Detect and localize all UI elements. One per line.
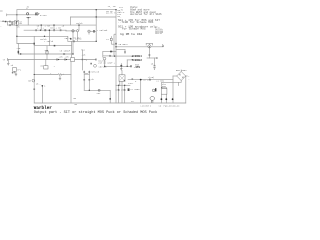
wire box TP2 drop (14, 71, 16, 72)
ground G1 (7, 63, 9, 65)
caps row y=30.2 (36, 29, 61, 31)
svg-text:1n5: 1n5 (115, 88, 120, 91)
wire vertical x=79 (78, 25, 80, 30)
wire vertical x=67.8 (67, 36, 69, 41)
transistor Q4 (32, 79, 35, 82)
svg-text:+IN: +IN (0, 19, 5, 22)
wire bridge right drop (185, 76, 187, 103)
wire vertical x=102.8 (102, 52, 104, 58)
wire left stub (0, 10, 2, 12)
wire vertical x=54 (53, 25, 55, 30)
wire rail R43 (17, 43, 34, 45)
wire vertical x17 to R43 (16, 36, 18, 43)
dark comp x=18.3 (18, 51, 20, 54)
wire diode branch x=121.3 (120, 64, 122, 69)
wire long vertical x=71 below box (70, 62, 72, 104)
comp box at x=111.3 (110, 38, 112, 40)
wire bus D y=25.1 (8, 24, 97, 26)
wire y=58 (147, 57, 157, 59)
wire q3 out (151, 46, 163, 48)
terminal TP tick (7, 58, 9, 60)
wire stub y=17.4 (27, 16, 31, 18)
wire y=41.3 (68, 40, 96, 42)
wire feedback y=74.5 (34, 74, 58, 76)
comp on y=55.9 (109, 55, 112, 57)
svg-text:..7k0R for Schade MOS: ..7k0R for Schade MOS (118, 20, 154, 24)
box at 119-125 (119, 75, 125, 82)
wire y=54 (18, 53, 73, 55)
caps on rail 59.5 (57, 59, 66, 61)
out tick (162, 45, 164, 48)
wire vertical x=71.5 (71, 41, 73, 57)
svg-text:22n+: 22n+ (128, 82, 134, 85)
wire transformer drops (160, 94, 162, 98)
wire y=45.7 (34, 45, 71, 47)
wire rail y=66.3 (105, 65, 131, 67)
svg-text:CHOKE2: CHOKE2 (133, 59, 142, 62)
wire vertical x=89.3 (88, 71, 90, 90)
wire gnd drop x=8.3 (7, 60, 9, 64)
svg-text:Listed x: Listed x (141, 105, 152, 108)
wire vertical x=41.2 (40, 25, 42, 30)
bars on x=34.2 (33, 88, 35, 91)
output circle J2 (150, 97, 155, 101)
wire bridge right arm (186, 75, 188, 77)
blob on y45.7 (54, 45, 56, 47)
bars on x=125 (124, 51, 126, 54)
bars on wire41.3 (73, 40, 76, 42)
bridge rectifier BR1 (177, 72, 186, 81)
dark cap 128 (128, 88, 130, 91)
wire vertical x=125 (124, 50, 126, 54)
svg-text:-: - (0, 25, 1, 28)
wire verticals to bottom rail (115, 85, 117, 103)
junction blob x34.2 R43 (34, 43, 35, 45)
junction dot input (16, 21, 17, 22)
choke arrow 1 (131, 55, 133, 57)
comp at 132 (132, 78, 134, 81)
svg-text:TS2: TS2 (81, 48, 86, 51)
svg-text:SR/1k8: SR/1k8 (99, 65, 108, 68)
bars on x=116 y43-45 (115, 42, 117, 45)
svg-text:1n5: 1n5 (121, 88, 126, 91)
junction dots rail 85.3 (118, 85, 119, 86)
junction dots row (40, 30, 41, 31)
bars x=149.4 (149, 54, 151, 57)
wire drop x=45.8 (45, 60, 47, 66)
svg-text:+(SR): +(SR) (148, 76, 155, 79)
blob cap x=28.2 (27, 17, 29, 18)
caps on x=89.3 (88, 72, 90, 80)
svg-text:CHOKE1: CHOKE1 (133, 55, 142, 58)
wire vertical x=28.2 (27, 18, 29, 25)
svg-text:+SR: +SR (59, 55, 64, 58)
svg-text:1g 3M to 342: 1g 3M to 342 (120, 32, 142, 36)
dark dot top of x=42.6 (42, 85, 44, 87)
wire y=74.2 link (84, 73, 89, 75)
wire drop x=154.5 (154, 58, 156, 65)
svg-text:for Schade MOS: for Schade MOS (122, 27, 146, 31)
transistor Q1 (72, 30, 74, 32)
svg-text:SID-xx: SID-xx (172, 105, 181, 108)
wire rail y=90.3 (84, 89, 110, 91)
dark blob x=91 (91, 63, 92, 65)
wire Q1 down (72, 32, 74, 41)
wire y=51.5 (103, 51, 116, 53)
svg-text:+ SR: + SR (45, 25, 51, 28)
wire box drops (119, 81, 121, 85)
resistor box R1 input (15, 20, 19, 25)
wire vertical bus x=96.2 (95, 10, 97, 42)
svg-text:declared for all SFAS: declared for all SFAS (130, 13, 162, 16)
wire q3 base y=46.8 (116, 46, 148, 48)
dark bar in box (16, 21, 17, 24)
input series blob (5, 21, 7, 23)
wire rail C (71, 16, 117, 18)
cap on y54 (64, 53, 65, 55)
ground G2 (59, 78, 61, 80)
wire vas vertical x=82.4 (81, 50, 83, 70)
dark comp at 70.8 (70, 38, 72, 40)
wire gnd stub zigzag (59, 76, 61, 78)
box TP2 (13, 68, 17, 72)
zigzag resistor feedback (58, 74, 62, 76)
svg-text:-: - (39, 82, 40, 85)
wire component row y=30.2 (24, 29, 66, 31)
terminal tick rail B (6, 14, 8, 16)
ground G3 (15, 74, 17, 76)
svg-text:Output part - SIT or straight: Output part - SIT or straight MOS Puck o… (34, 110, 157, 115)
wire q3 emitter x=149.4 (148, 48, 150, 58)
wire rail y=85.3 (116, 84, 130, 86)
wire base link Q1 Q2 (65, 29, 67, 32)
svg-text:+SR 1k 10uF +: +SR 1k 10uF + (98, 61, 116, 64)
svg-text:set: set (97, 92, 102, 95)
wire bottom rail (34, 102, 186, 104)
wire vertical x=127.2 (126, 60, 128, 66)
wire long right bus x=116 (115, 10, 117, 86)
svg-text:Warbler: Warbler (34, 106, 52, 111)
junction dot 140.7 (140, 79, 142, 81)
wire bridge left arm (173, 75, 177, 77)
capacitor C2 bars on bus D (9, 24, 12, 26)
comp near 149-151 on wire79.6 (148, 79, 151, 81)
small circle J3 (152, 89, 155, 92)
svg-text:+ SR/25k: + SR/25k (97, 29, 108, 32)
svg-text:+C 100n: +C 100n (130, 88, 140, 91)
wire box feed (121, 71, 123, 75)
vas bars x=82.4 (82, 58, 84, 61)
bold bar 93.4 (93, 30, 94, 33)
svg-text:49.7k TS: 49.7k TS (106, 12, 117, 15)
wire JFET drop x=47 (46, 46, 48, 51)
wire main rail R59.5 (8, 59, 96, 61)
wire vertical x=140.7 (140, 80, 142, 103)
transistor Q3 (148, 45, 151, 48)
ground G4 (120, 69, 122, 71)
wire rail B power (7, 14, 36, 16)
wire bridge left drop x=173 (172, 76, 174, 98)
capacitor C1 bars (8, 21, 11, 23)
circle comp x=89 (88, 30, 91, 33)
svg-text:+2k: +2k (82, 53, 87, 56)
svg-text:TP2: TP2 (17, 68, 22, 71)
blob on x=110.2 (110, 98, 111, 100)
comp x=154.5 bottom (154, 64, 156, 67)
wire Q2 down (77, 32, 79, 41)
wire q3 collector stubs (148, 44, 150, 45)
svg-text:x/TS2: x/TS2 (75, 38, 82, 41)
wire choke2 line (127, 59, 131, 61)
power connector symbol x=36 (36, 13, 39, 16)
diode D1 (120, 65, 122, 67)
svg-text:234/78: 234/78 (155, 32, 163, 35)
wire vertical x=12.2 (11, 22, 13, 26)
wire y=79.6 (128, 79, 173, 81)
wire input vertical bus x=16.5 (16, 15, 18, 21)
transistor Q5 (94, 64, 97, 67)
svg-text:SR 100uF: SR 100uF (60, 50, 71, 53)
svg-text:+SR: +SR (16, 47, 21, 50)
svg-text:SR/1k: SR/1k (76, 22, 83, 25)
JFET J1 (46, 51, 48, 54)
wire vertical x=7.5 (7, 22, 9, 26)
wire vertical x=73 (72, 41, 74, 54)
box on rail 59.5 (71, 58, 75, 62)
transistor Q6 (103, 57, 106, 60)
svg-text:40x: 40x (135, 65, 140, 68)
svg-text:SR 0R22: SR 0R22 (119, 43, 129, 46)
wire rail R36 (17, 35, 68, 37)
caps on x=84.2 (83, 72, 85, 81)
svg-text:JFE: JFE (44, 49, 49, 52)
svg-text:+ SR/1k: + SR/1k (44, 40, 54, 43)
transistor Q2 (76, 30, 78, 32)
electrolytic cap at 131 (130, 65, 131, 67)
svg-text:Ts, SR: Ts, SR (108, 5, 117, 8)
power connector circle 27.6 (27, 13, 29, 15)
wire y=55.9 (103, 55, 111, 57)
svg-text:+SR: +SR (65, 55, 70, 58)
wire top rail A (17, 9, 116, 11)
wire comp drop x=18.3 (17, 44, 19, 55)
svg-text:9-24V: 9-24V (40, 14, 47, 17)
wire driver down x=104.7 (104, 60, 106, 66)
wire vertical x=84.2 (83, 71, 85, 90)
wire corner x17 (16, 10, 18, 15)
choke arrow 2 (131, 59, 133, 61)
svg-text:-: - (188, 78, 189, 81)
wire vertical x=70.5 (70, 17, 72, 25)
filled comp on y=51.5 (110, 51, 112, 53)
terminal dots (161, 98, 163, 100)
svg-text:SR/22k: SR/22k (91, 70, 100, 73)
wire dots drops (160, 100, 162, 103)
svg-text:BR1 200V: BR1 200V (176, 69, 187, 72)
svg-text:+1 35V: +1 35V (156, 79, 165, 82)
1n5 caps (118, 89, 126, 90)
resistor R2 on x=12.2 (11, 22, 13, 24)
wire y=49.6 (116, 49, 125, 51)
box below rail (44, 66, 48, 69)
junction dots R36 (16, 36, 17, 37)
svg-text:SR_: SR_ (117, 15, 122, 18)
wire vertical x=42.6 (42, 86, 44, 103)
wire tail x=49.4 (48, 30, 50, 46)
wire bridge bottom drop (180, 81, 182, 83)
comp at 156.4 (155, 57, 158, 59)
wire choke1 line (111, 55, 131, 57)
wire bridge top stub (180, 70, 182, 72)
dark bar at 155 (155, 88, 156, 91)
wire input line y=21.6 (2, 21, 15, 23)
fuse comp rail 90.3 (98, 90, 100, 92)
wire vertical x=34.2 long (33, 36, 35, 103)
wire vertical x=110.2 (109, 90, 111, 103)
transformer box T1 (162, 89, 167, 95)
svg-text:35V: 35V (162, 85, 167, 88)
